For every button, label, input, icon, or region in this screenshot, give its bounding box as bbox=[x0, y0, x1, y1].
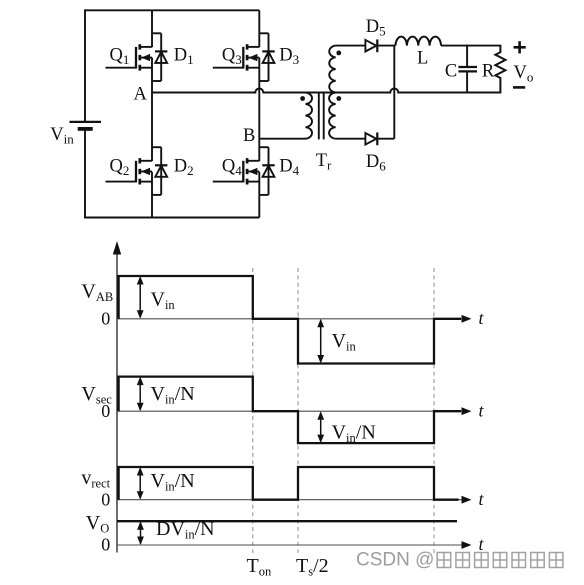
wire: leg2 mid (Q3 source to Q4 drain via node B) bbox=[258, 58, 260, 162]
dimension arrow Vin/N (V_sec negative) bbox=[320, 413, 322, 442]
upper secondary polarity dot bbox=[336, 51, 341, 56]
dashed marker Ton bbox=[252, 268, 254, 553]
diode D3 (body diode of Q3) bbox=[262, 51, 274, 63]
svg-text:B: B bbox=[243, 126, 255, 146]
waveform trace V_AB bbox=[119, 276, 461, 364]
diode D2 (body diode of Q2) bbox=[155, 165, 167, 177]
transformer Tr primary winding bbox=[306, 93, 313, 139]
diode D6 bbox=[365, 132, 377, 145]
transistor Q3 bbox=[213, 33, 269, 81]
wire: node B to primary bottom bbox=[259, 138, 306, 140]
dimension arrow Vin/N (V_sec positive) bbox=[139, 378, 141, 410]
wire: D6 cathode to junction bbox=[377, 138, 394, 140]
dashed marker Ts/2+Ton bbox=[433, 268, 435, 553]
wire: leg1 mid (Q1 source to Q2 drain via node A) bbox=[151, 58, 153, 162]
diode D4 (body diode of Q4) bbox=[262, 165, 274, 177]
watermark CJK glyphs bbox=[437, 553, 563, 568]
primary polarity dot bbox=[300, 96, 305, 101]
battery Vin bbox=[70, 122, 102, 129]
dimension arrow Vin/N (v_rect) bbox=[139, 469, 141, 499]
diode D5 bbox=[365, 39, 377, 52]
dimension arrow Vin (V_AB positive) bbox=[139, 278, 141, 318]
output + terminal bbox=[514, 41, 526, 53]
dimension arrow DVin/N bbox=[140, 523, 142, 544]
time axis for V_AB bbox=[117, 318, 464, 320]
transformer Tr upper secondary winding bbox=[329, 46, 335, 93]
wire: leg2 top (rail to Q3 drain) bbox=[258, 10, 260, 47]
wire: leg1 top (rail to Q1 drain) bbox=[151, 10, 153, 47]
svg-text:0: 0 bbox=[101, 535, 110, 555]
svg-text:C: C bbox=[445, 62, 457, 82]
transistor Q2 bbox=[106, 147, 162, 195]
vertical axis arrowhead bbox=[113, 241, 121, 255]
wire: leg1 bottom (Q2 source to bottom rail) bbox=[151, 172, 153, 218]
waveform trace V_O (DC level) bbox=[117, 520, 457, 522]
dimension arrow Vin (V_AB negative) bbox=[320, 320, 322, 362]
wire: top rail bbox=[85, 9, 259, 11]
svg-text:Ts/2: Ts/2 bbox=[296, 555, 329, 579]
wire: leg2 bottom (Q4 source to bottom rail) bbox=[258, 172, 260, 218]
dashed marker Ts/2 bbox=[297, 268, 299, 553]
svg-text:0: 0 bbox=[101, 401, 110, 421]
wire: node A to primary top / secondary center tap to output return (with hops) bbox=[152, 89, 500, 93]
wire: battery - to bottom rail bbox=[84, 129, 86, 219]
resistor R bbox=[495, 45, 505, 94]
svg-text:A: A bbox=[134, 85, 148, 105]
svg-text:L: L bbox=[417, 49, 428, 69]
time axis for V_O bbox=[117, 544, 464, 546]
svg-text:0: 0 bbox=[101, 309, 110, 329]
transistor Q4 bbox=[213, 147, 269, 195]
wire: left vertical to battery + bbox=[84, 9, 86, 122]
lower secondary polarity dot bbox=[336, 96, 341, 101]
inductor L bbox=[396, 37, 442, 46]
waveform trace V_sec bbox=[119, 377, 461, 444]
wire: L to output + bbox=[441, 45, 500, 47]
wire: D5 cathode to filter node bbox=[377, 45, 395, 47]
wire: bottom rail bbox=[85, 217, 259, 219]
diode D1 (body diode of Q1) bbox=[155, 51, 167, 63]
wire: rectified node vertical (D6 to L input) bbox=[393, 45, 395, 139]
time axis for V_sec bbox=[117, 410, 464, 412]
waveform trace v_rect bbox=[119, 467, 459, 500]
transformer core bbox=[319, 93, 324, 140]
wire: upper secondary to D5 anode bbox=[336, 45, 366, 47]
output - terminal bbox=[513, 86, 525, 89]
vertical axis bbox=[116, 254, 118, 553]
svg-text:0: 0 bbox=[101, 490, 110, 510]
capacitor C bbox=[458, 45, 477, 94]
transformer Tr lower secondary winding bbox=[329, 93, 336, 139]
transistor Q1 bbox=[106, 33, 162, 81]
svg-text:CSDN @: CSDN @ bbox=[356, 550, 434, 571]
svg-text:R: R bbox=[482, 62, 495, 82]
time axis for v_rect bbox=[117, 499, 464, 501]
wire: lower secondary to D6 anode bbox=[336, 138, 366, 140]
